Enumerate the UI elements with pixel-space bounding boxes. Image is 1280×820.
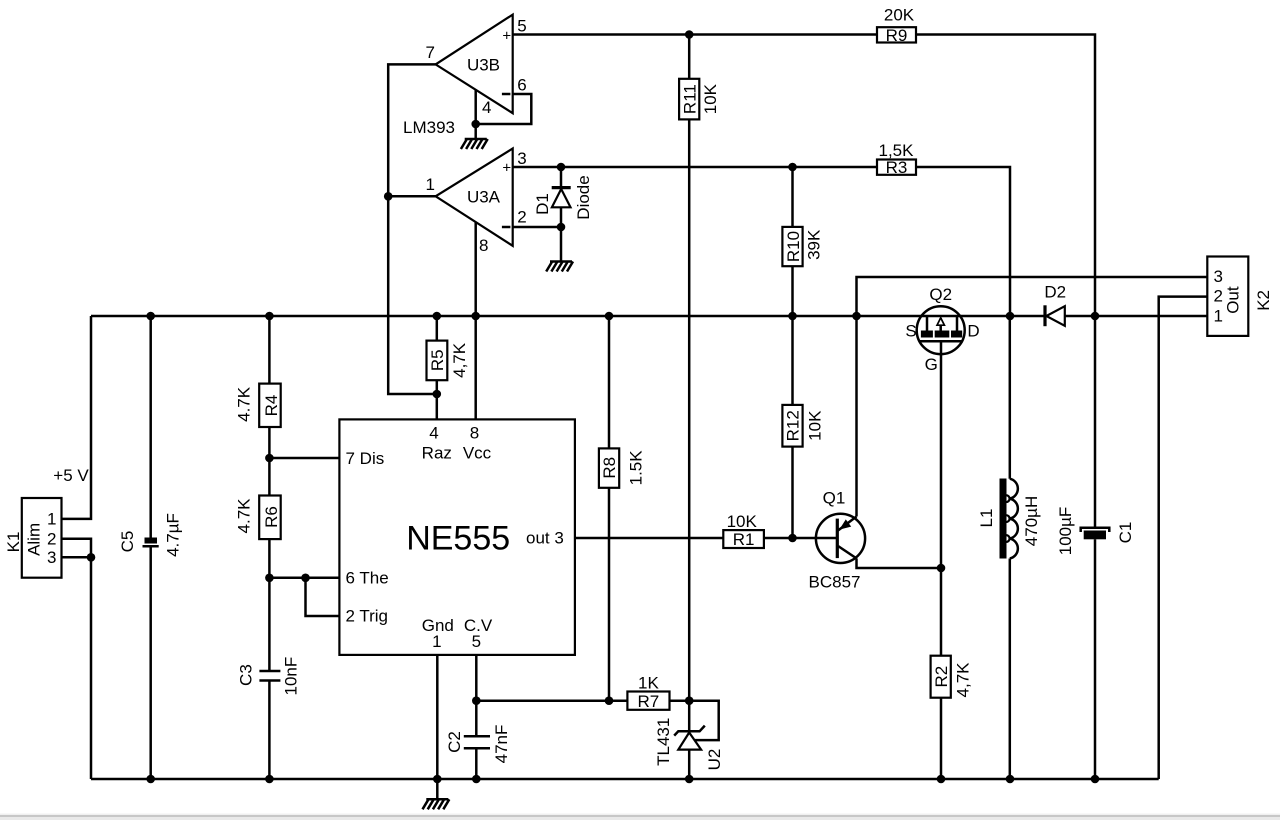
svg-text:47nF: 47nF xyxy=(492,725,511,764)
wire R12 bottom xyxy=(791,447,794,538)
svg-text:6 The: 6 The xyxy=(346,569,389,588)
svg-text:Diode: Diode xyxy=(574,175,593,219)
wire TL431 cathode lead xyxy=(688,701,691,732)
svg-text:4.7µF: 4.7µF xyxy=(164,513,183,557)
svg-text:NE555: NE555 xyxy=(406,520,510,558)
svg-text:LM393: LM393 xyxy=(403,118,455,137)
op-amp U3A comparator triangle xyxy=(436,149,513,246)
wire ground stub below rail xyxy=(436,779,439,799)
svg-text:R12: R12 xyxy=(784,410,803,441)
junction rail / R4 xyxy=(265,312,274,321)
wire R3 to corner down to L1 node xyxy=(916,167,1010,316)
svg-text:4.7K: 4.7K xyxy=(235,498,254,534)
svg-text:R2: R2 xyxy=(932,666,951,688)
svg-text:8: 8 xyxy=(479,236,488,255)
wire C3 top xyxy=(268,578,271,671)
junction ground rail / R2 xyxy=(937,775,946,784)
resistor R7 xyxy=(627,692,669,710)
wire R5 top xyxy=(436,316,439,341)
svg-text:R1: R1 xyxy=(733,530,755,549)
IC U1 NE555 body xyxy=(339,419,575,655)
svg-text:D1: D1 xyxy=(533,193,552,215)
svg-text:4,7K: 4,7K xyxy=(953,662,972,698)
svg-text:7: 7 xyxy=(426,43,435,62)
wire ground rail bottom xyxy=(91,778,1159,781)
svg-text:K2: K2 xyxy=(1254,290,1273,311)
svg-text:U3B: U3B xyxy=(467,56,500,75)
svg-text:C1: C1 xyxy=(1116,522,1135,544)
resistor R12 xyxy=(782,405,802,447)
wire D1 cathode lead xyxy=(560,167,563,188)
svg-text:2: 2 xyxy=(1214,287,1223,306)
junction rail / Q1 emitter xyxy=(852,312,861,321)
svg-text:1: 1 xyxy=(426,175,435,194)
svg-text:470µH: 470µH xyxy=(1022,496,1041,546)
junction rail / pin8 Vcc xyxy=(471,312,480,321)
wire NE555 pin2 Trig jog xyxy=(306,578,340,616)
wire R5 bottom to NE555 pin4 xyxy=(436,380,439,419)
capacitor C5 xyxy=(143,538,159,547)
svg-text:Q2: Q2 xyxy=(929,285,952,304)
resistor R2 xyxy=(931,656,951,698)
svg-text:R10: R10 xyxy=(784,231,803,262)
svg-text:1,5K: 1,5K xyxy=(879,141,915,160)
wire K1 pin3 to ground rail xyxy=(62,557,92,779)
svg-text:10nF: 10nF xyxy=(282,657,301,696)
resistor R10 xyxy=(782,227,802,266)
svg-text:3: 3 xyxy=(517,149,526,168)
resistor R11 xyxy=(679,79,699,120)
op-amp U3B minus input mark xyxy=(502,93,511,96)
junction U3A pin2 / D1 anode xyxy=(557,223,566,232)
wire U3A pin8 supply xyxy=(474,222,477,419)
svg-text:K1: K1 xyxy=(4,532,23,553)
diode D2 xyxy=(1045,305,1065,326)
svg-text:1: 1 xyxy=(1214,307,1223,326)
svg-text:BC857: BC857 xyxy=(809,573,861,592)
wire R10 top xyxy=(791,167,794,227)
wire K2 pin3 line down to rail and Q1 emitter xyxy=(857,277,1208,517)
svg-text:R3: R3 xyxy=(886,158,908,177)
junction U3B pin5 line / R11 xyxy=(685,30,694,39)
wire Q2 gate lead xyxy=(940,341,943,568)
svg-text:R4: R4 xyxy=(262,395,281,417)
wire NE555 pin5 C.V down xyxy=(475,655,478,701)
svg-text:6: 6 xyxy=(517,76,526,95)
svg-text:R11: R11 xyxy=(680,84,699,114)
junction rail / R8 xyxy=(605,312,614,321)
svg-text:R9: R9 xyxy=(886,26,908,45)
wire NE555 out pin3 to R1 xyxy=(575,537,723,540)
wire R4 top xyxy=(268,316,271,384)
wire C2 bottom xyxy=(475,749,478,779)
junction ground rail / NE555 Gnd xyxy=(433,775,442,784)
wire NE555 pin6 The lead xyxy=(269,577,339,580)
wire U3B +input pin5 line xyxy=(513,33,877,36)
junction rail / R10 R12 xyxy=(788,312,797,321)
svg-text:Alim: Alim xyxy=(25,523,44,556)
wire R6 bottom xyxy=(268,539,271,578)
page footer divider line xyxy=(0,814,1280,816)
wire L1 bottom lead xyxy=(1009,559,1012,780)
svg-text:5: 5 xyxy=(517,17,526,36)
resistor R4 xyxy=(259,384,281,427)
svg-text:3: 3 xyxy=(47,548,56,567)
svg-text:1K: 1K xyxy=(638,673,659,692)
wire U3B output pin7 down to R5 bottom xyxy=(388,64,437,394)
svg-text:Q1: Q1 xyxy=(823,488,846,507)
svg-text:TL431: TL431 xyxy=(654,718,673,766)
junction U3B pin6 / pin4 ground xyxy=(471,120,480,129)
junction C.V / C2 / R7 line xyxy=(472,696,481,705)
resistor R5 xyxy=(427,341,448,381)
svg-text:C5: C5 xyxy=(118,531,137,553)
wire R2 bottom xyxy=(940,698,943,779)
svg-text:4.7K: 4.7K xyxy=(235,386,254,422)
wire L1 top lead xyxy=(1009,316,1012,479)
svg-text:39K: 39K xyxy=(805,229,824,260)
wire D1 anode to ground xyxy=(560,207,563,261)
svg-text:R8: R8 xyxy=(600,457,619,479)
shunt regulator U2 TL431 xyxy=(674,726,705,750)
svg-text:D2: D2 xyxy=(1044,282,1066,301)
wire C2 top xyxy=(475,701,478,735)
resistor R3 xyxy=(877,160,916,175)
wire C5 bottom xyxy=(149,547,152,780)
wire TL431 anode to ground rail xyxy=(688,750,691,779)
junction ground rail / L1 xyxy=(1006,775,1015,784)
capacitor C3 xyxy=(259,671,280,681)
junction U3A output / U3B output line xyxy=(384,192,393,201)
resistor R1 xyxy=(723,530,764,548)
connector K2 Out xyxy=(1207,257,1248,336)
svg-text:10K: 10K xyxy=(701,83,720,114)
wire K1 pin2 jog xyxy=(62,539,92,558)
diode D1 xyxy=(552,188,571,208)
wire +5V rail xyxy=(91,315,1010,318)
svg-text:R6: R6 xyxy=(262,506,281,528)
svg-text:1.5K: 1.5K xyxy=(627,450,646,486)
svg-text:+: + xyxy=(502,27,511,44)
junction rail / C5 xyxy=(146,312,155,321)
inductor L1 470uH xyxy=(1000,479,1018,559)
wire output line from R9 corner down to D2 node xyxy=(916,35,1095,317)
capacitor C1 electrolytic xyxy=(1081,528,1110,540)
op-amp U3B comparator triangle xyxy=(436,15,513,114)
wire R11 top xyxy=(688,35,691,79)
junction rail / L1 xyxy=(1006,312,1015,321)
svg-text:10K: 10K xyxy=(727,512,758,531)
svg-text:2: 2 xyxy=(47,530,56,549)
ground symbol at U3A pin2 xyxy=(546,262,573,272)
wire C3 bottom to ground rail xyxy=(268,681,271,780)
wire R8 bottom down to R7 node xyxy=(608,488,611,701)
wire D2 cathode to output node xyxy=(1065,315,1095,318)
svg-text:S: S xyxy=(905,322,916,341)
wire R1 to Q1 base xyxy=(764,537,837,540)
svg-text:out 3: out 3 xyxy=(526,529,564,548)
junction R4 R6 / Dis xyxy=(265,454,274,463)
svg-text:2: 2 xyxy=(517,208,526,227)
capacitor C2 xyxy=(464,736,490,748)
junction U3A pin3 line / D1 xyxy=(557,163,566,172)
wire R4 bottom to R6 top xyxy=(268,427,271,496)
svg-text:G: G xyxy=(925,355,938,374)
svg-text:4: 4 xyxy=(429,424,438,443)
svg-text:10K: 10K xyxy=(806,410,825,441)
wire L1 node to D2 anode xyxy=(1010,315,1047,318)
wire R11 bottom down to TL431 node xyxy=(688,119,691,700)
wire R12 top xyxy=(791,316,794,405)
svg-text:C2: C2 xyxy=(445,731,464,753)
junction ground rail / C1 xyxy=(1091,775,1100,784)
wire R8 top xyxy=(608,316,611,448)
svg-text:C3: C3 xyxy=(237,664,256,686)
wire U3B pin4 to ground xyxy=(474,90,477,139)
wire R10 bottom xyxy=(791,266,794,316)
transistor Q2 P-MOSFET xyxy=(917,306,965,354)
junction R8 bottom / R7 line xyxy=(605,696,614,705)
wire TL431 ref loop xyxy=(689,701,719,740)
svg-text:L1: L1 xyxy=(977,509,996,528)
junction U3A pin3 line / R10 xyxy=(788,163,797,172)
ground symbol at U3B pin4 xyxy=(461,139,488,149)
junction rail / D2 C1 K2 xyxy=(1091,312,1100,321)
junction R7 / R11 / TL431 xyxy=(685,696,694,705)
op-amp U3A minus input mark xyxy=(502,226,511,229)
wire U3A output pin1 xyxy=(388,195,435,198)
ground symbol at NE555 pin1 xyxy=(423,799,450,809)
wire Q1 collector to Q2 gate node xyxy=(857,558,942,568)
junction R1 / R12 / Q1 base xyxy=(788,534,797,543)
svg-text:Raz: Raz xyxy=(422,444,452,463)
svg-text:8: 8 xyxy=(470,424,479,443)
wire U3B -input pin6 loop xyxy=(476,94,532,124)
junction R5 bottom / U3B output xyxy=(433,390,442,399)
junction Q1 collector / Q2 gate / R2 xyxy=(937,564,946,573)
wire C1 top lead xyxy=(1094,316,1097,527)
wire K2 pin2 down to ground rail xyxy=(1159,297,1208,779)
junction K1 pin2 pin3 ground xyxy=(87,553,96,562)
svg-text:+: + xyxy=(502,160,511,177)
wire NE555 pin1 Gnd down xyxy=(436,655,439,779)
wire R2 top xyxy=(940,568,943,656)
svg-text:Out: Out xyxy=(1223,286,1242,314)
svg-text:2 Trig: 2 Trig xyxy=(346,607,389,626)
resistor R8 xyxy=(599,448,619,487)
svg-text:100µF: 100µF xyxy=(1056,507,1075,556)
svg-text:7 Dis: 7 Dis xyxy=(346,449,385,468)
resistor R9 xyxy=(877,27,916,42)
svg-text:4: 4 xyxy=(482,98,491,117)
wire K2 pin1 lead xyxy=(1095,315,1207,318)
connector K1 Alim xyxy=(22,498,62,578)
wire NE555 pin7 Dis lead xyxy=(269,457,339,460)
svg-text:4,7K: 4,7K xyxy=(450,342,469,378)
wire R7 to TL431 node xyxy=(670,699,690,702)
transistor Q1 BC857 PNP xyxy=(816,514,865,563)
svg-text:20K: 20K xyxy=(884,5,915,24)
junction R6 / The / C3 xyxy=(265,574,274,583)
junction ground rail / TL431 xyxy=(685,775,694,784)
svg-text:R7: R7 xyxy=(638,692,660,711)
svg-text:1: 1 xyxy=(432,632,441,651)
svg-text:1: 1 xyxy=(47,510,56,529)
junction ground rail / C2 xyxy=(472,775,481,784)
junction The Trig tie xyxy=(301,574,310,583)
wire C1 bottom lead xyxy=(1094,539,1097,779)
junction rail / R5 xyxy=(433,312,442,321)
junction ground rail / C5 xyxy=(146,775,155,784)
svg-text:R5: R5 xyxy=(428,349,447,371)
svg-text:D: D xyxy=(967,322,979,341)
svg-text:5: 5 xyxy=(472,632,481,651)
wire C5 top xyxy=(149,316,152,538)
svg-text:U3A: U3A xyxy=(467,188,501,207)
svg-text:3: 3 xyxy=(1214,267,1223,286)
svg-text:U2: U2 xyxy=(705,749,724,771)
wire U3A -input pin2 xyxy=(513,226,561,229)
svg-text:Vcc: Vcc xyxy=(463,444,492,463)
wire C.V node to R7 xyxy=(476,699,627,702)
svg-text:+5 V: +5 V xyxy=(53,466,89,485)
wire K1 pin1 lead to +5V rail xyxy=(62,316,92,519)
resistor R6 xyxy=(259,496,281,540)
junction ground rail / C3 xyxy=(265,775,274,784)
wire U3A +input pin3 line xyxy=(513,166,877,169)
